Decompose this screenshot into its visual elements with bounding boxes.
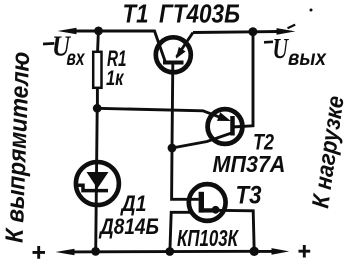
svg-text:Т3: Т3 bbox=[236, 182, 262, 210]
svg-text:Д814Б: Д814Б bbox=[98, 214, 159, 239]
svg-text:вх: вх bbox=[67, 47, 86, 70]
svg-text:вых: вых bbox=[288, 47, 327, 70]
svg-text:ГТ403Б: ГТ403Б bbox=[159, 0, 240, 29]
svg-text:КП103К: КП103К bbox=[177, 225, 239, 251]
svg-text:U: U bbox=[273, 34, 290, 65]
svg-text:Т1: Т1 bbox=[123, 0, 149, 29]
svg-text:Д1: Д1 bbox=[120, 191, 147, 216]
svg-text:МП37А: МП37А bbox=[213, 151, 286, 177]
svg-text:1к: 1к bbox=[106, 67, 125, 90]
